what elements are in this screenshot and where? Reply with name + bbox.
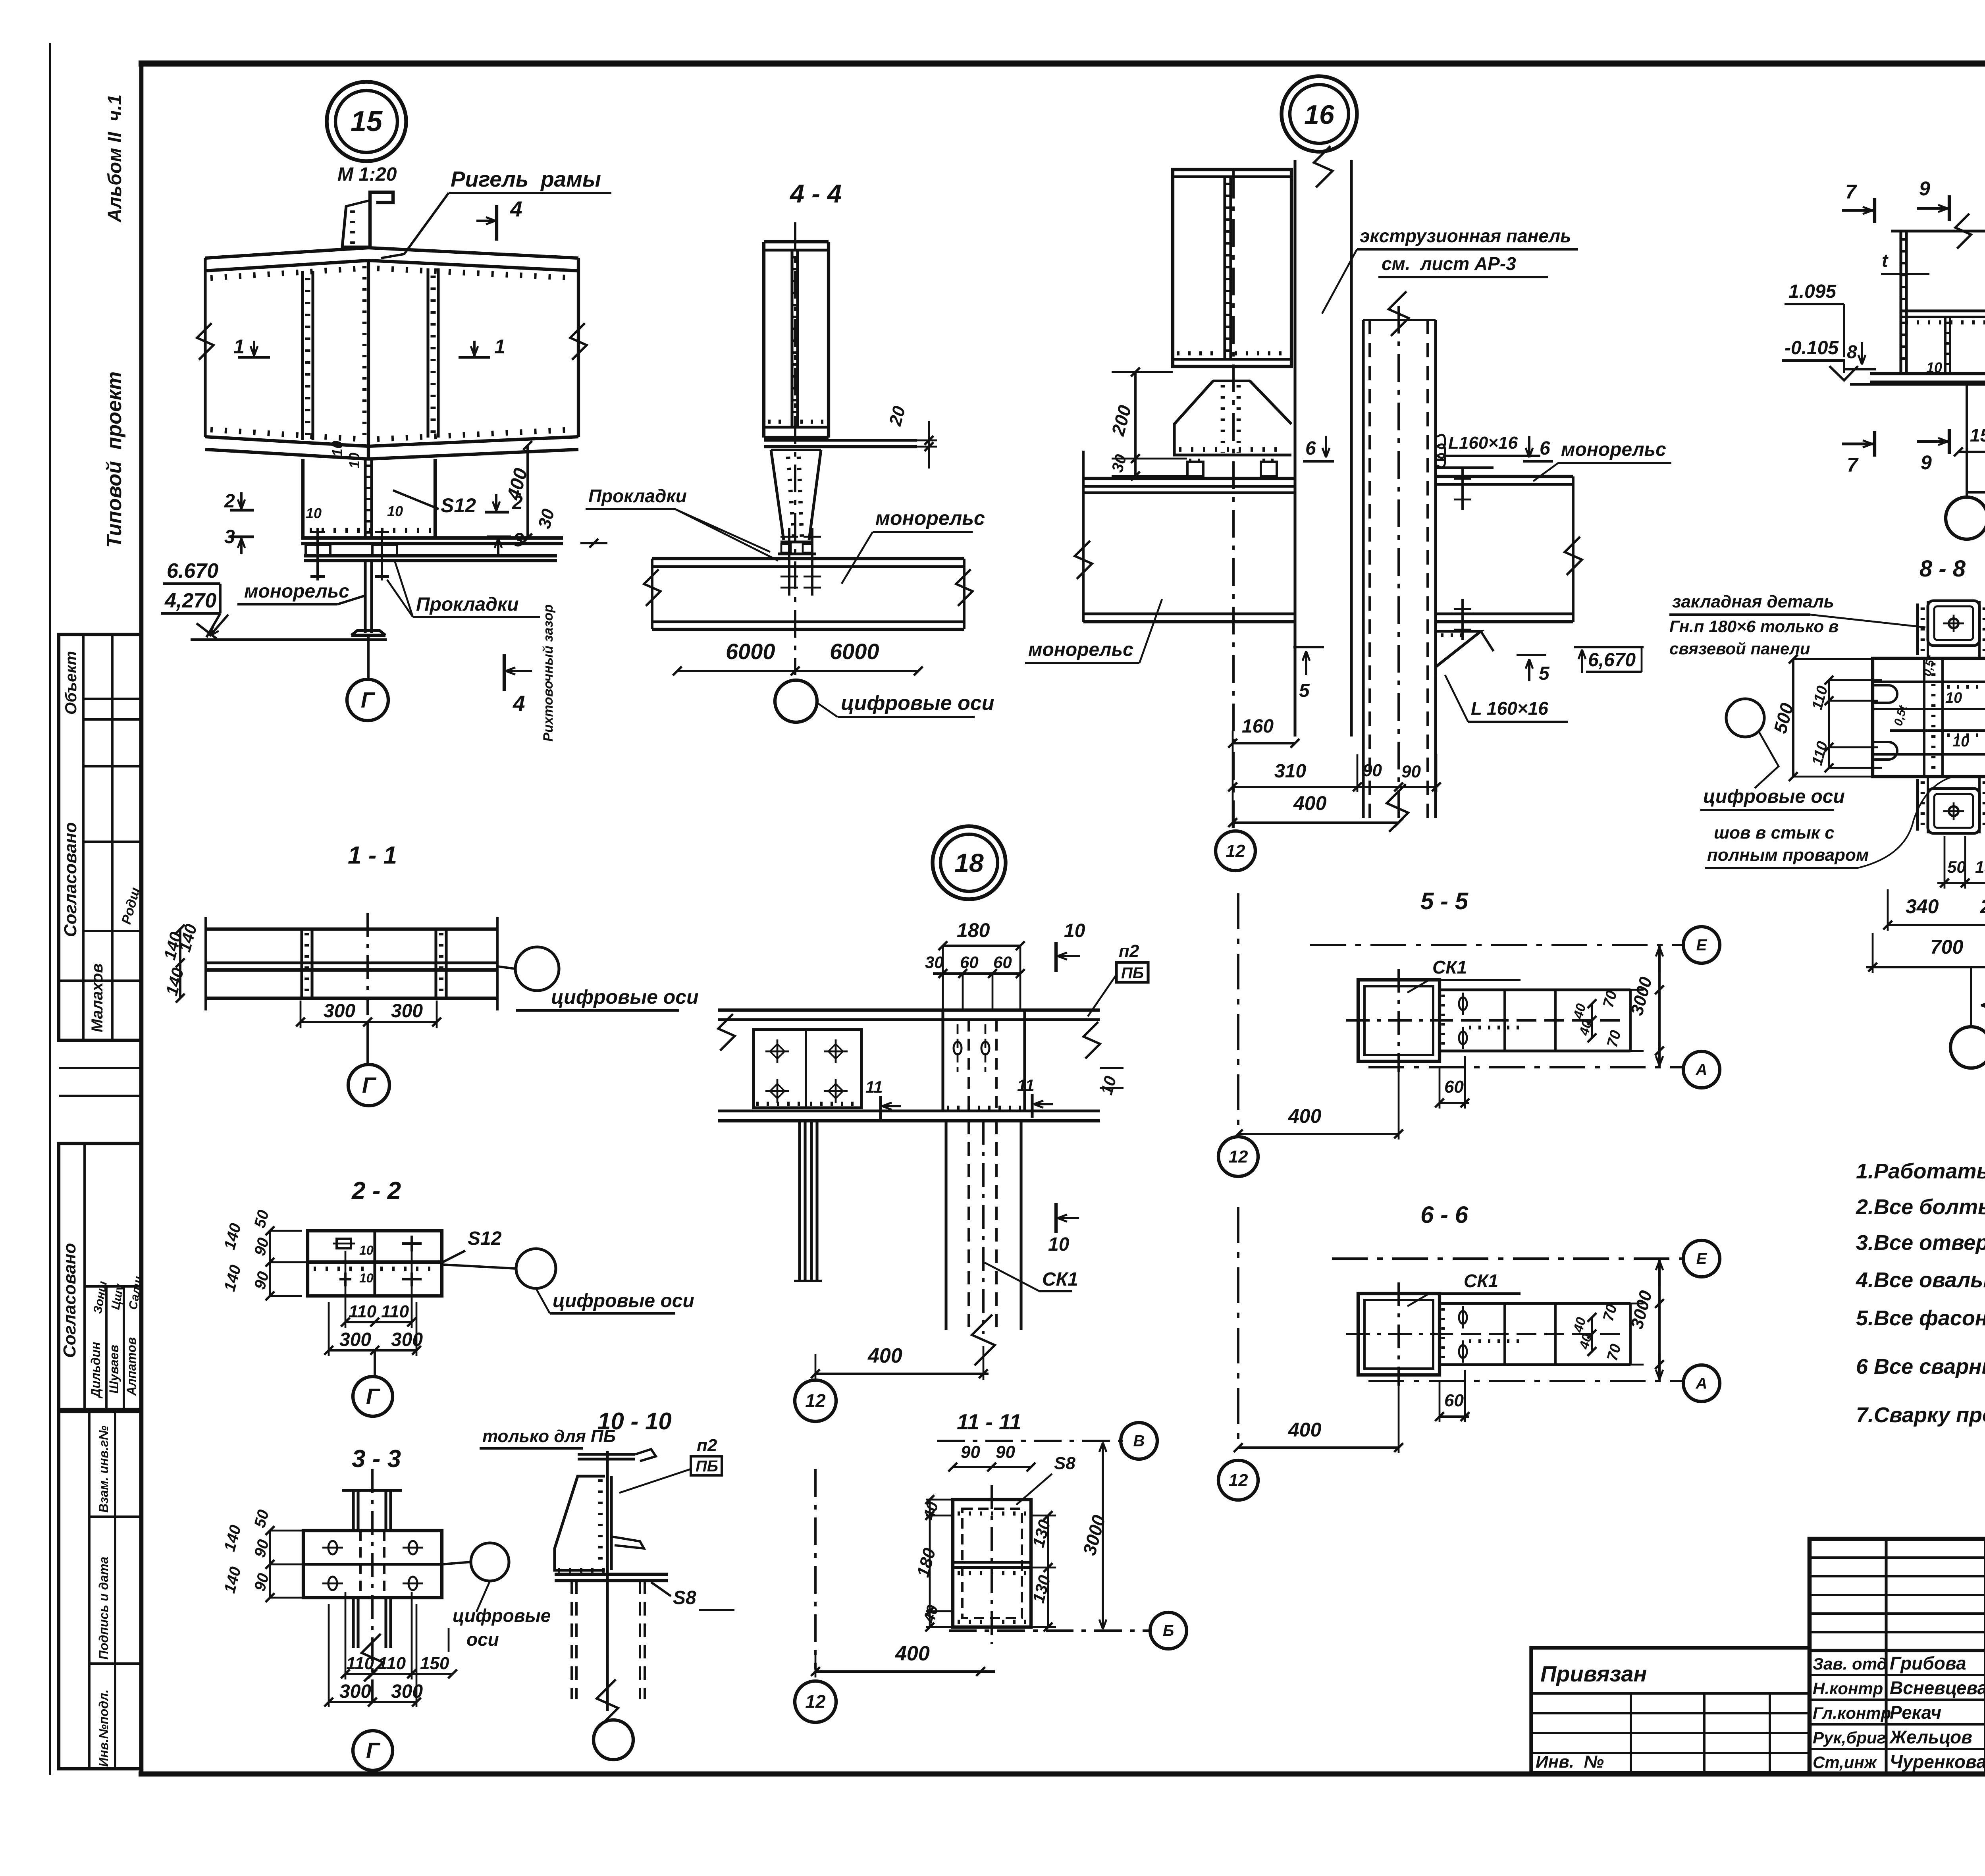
section 11-11 plate <box>953 1500 1031 1627</box>
section 5-5 axis E line <box>1310 944 1682 946</box>
svg-text:18: 18 <box>954 848 984 877</box>
margin small rows <box>59 1067 141 1069</box>
section 6-6 axis E line <box>1332 1257 1682 1260</box>
sheet outer left edge line <box>49 43 51 1775</box>
detail 16 axis circle 12 <box>1216 831 1255 871</box>
svg-text:1: 1 <box>233 335 245 358</box>
svg-text:10: 10 <box>1048 1234 1070 1255</box>
section 4-4 column <box>764 240 829 243</box>
detail 18 right connection plates <box>941 1010 944 1111</box>
section mark 5 left <box>1305 651 1307 675</box>
privyazan box <box>1531 1648 1810 1773</box>
svg-text:Г: Г <box>366 1738 381 1763</box>
svg-text:СК1: СК1 <box>1432 957 1467 978</box>
svg-text:90: 90 <box>961 1442 980 1462</box>
svg-text:Алпатов: Алпатов <box>124 1337 139 1396</box>
svg-text:10: 10 <box>1926 359 1942 376</box>
svg-text:В: В <box>1133 1433 1145 1450</box>
section 1-1 left dims 140 <box>179 929 181 998</box>
svg-text:6 Все сварные швы hш=6мм: 6 Все сварные швы hш=6мм <box>1856 1355 1985 1379</box>
svg-text:11: 11 <box>1017 1076 1035 1095</box>
title block outer box <box>1810 1539 1985 1774</box>
svg-text:монорельс: монорельс <box>1028 639 1133 660</box>
svg-text:2.Все болты М12.: 2.Все болты М12. <box>1856 1195 1985 1219</box>
dimension 400 vertical detail 15 <box>526 445 529 538</box>
section mark 11 right <box>1031 1094 1033 1118</box>
svg-text:монорельс: монорельс <box>1561 439 1666 460</box>
svg-text:300: 300 <box>324 1001 355 1022</box>
section 3-3 callout circle <box>471 1543 509 1581</box>
elevation 6.670 detail 16 <box>1581 650 1583 673</box>
svg-text:Согласовано: Согласовано <box>61 822 80 937</box>
svg-text:60: 60 <box>1444 1391 1464 1410</box>
detail 15 shim plates and lower plate <box>304 554 557 557</box>
svg-text:11: 11 <box>865 1078 883 1096</box>
svg-text:Альбом II ч.1: Альбом II ч.1 <box>104 94 125 223</box>
svg-text:6000: 6000 <box>830 639 879 664</box>
section 8-8 top embed plate <box>1928 601 1979 646</box>
svg-text:Грибова: Грибова <box>1890 1653 1966 1674</box>
svg-text:9: 9 <box>1919 177 1930 200</box>
section 8-8 left callout circle <box>1726 699 1764 737</box>
svg-text:шов в стык с: шов в стык с <box>1714 823 1835 843</box>
section 1-1 flange plan <box>206 927 497 931</box>
detail 10-10 hanger posts <box>570 1581 573 1699</box>
svg-text:3: 3 <box>513 530 524 551</box>
svg-text:10: 10 <box>306 505 322 521</box>
detail 15 anchor bolts <box>316 528 319 580</box>
svg-text:только для ПБ: только для ПБ <box>482 1427 616 1446</box>
section 5-5 axis circle E <box>1683 927 1720 963</box>
svg-text:Б: Б <box>1163 1622 1174 1640</box>
svg-text:Подпись и дата: Подпись и дата <box>96 1557 111 1660</box>
svg-text:60: 60 <box>1444 1077 1464 1097</box>
svg-text:300: 300 <box>391 1001 423 1022</box>
svg-text:300: 300 <box>339 1329 371 1350</box>
detail 10-10 axis circle <box>594 1720 633 1760</box>
svg-text:Г: Г <box>366 1384 381 1409</box>
drawing frame left border <box>139 64 144 1774</box>
svg-text:Дильдин: Дильдин <box>89 1342 103 1399</box>
section 5-5 axis circle A <box>1683 1051 1720 1088</box>
title block upper thin rows <box>1810 1556 1985 1559</box>
detail 16 shim pads <box>1187 462 1203 476</box>
svg-text:Г: Г <box>362 1072 377 1097</box>
section 4-4 centre line <box>794 222 796 675</box>
svg-text:Рихтовочный зазор: Рихтовочный зазор <box>541 604 556 742</box>
svg-text:-0.105: -0.105 <box>1785 337 1839 359</box>
section mark 5 right <box>1528 659 1530 681</box>
svg-text:150: 150 <box>1975 858 1985 876</box>
svg-text:А: А <box>1696 1061 1707 1079</box>
detail 10-10 horizontal plate <box>555 1573 668 1576</box>
detail 18 hanger plate below left <box>798 1121 801 1281</box>
section 11-11 centre line <box>991 1485 993 1644</box>
section 1-1 dim 300 300 <box>301 1021 437 1023</box>
svg-text:S12: S12 <box>468 1228 502 1249</box>
svg-text:Шуваев: Шуваев <box>107 1345 121 1394</box>
svg-text:S8: S8 <box>1054 1454 1075 1473</box>
svg-text:400: 400 <box>895 1642 930 1665</box>
svg-text:90: 90 <box>1401 762 1421 781</box>
svg-text:L160×16: L160×16 <box>1448 433 1518 453</box>
section 6-6 bar <box>1440 1302 1630 1305</box>
section 8-8 dims 110 110 <box>1828 680 1830 768</box>
svg-text:см. лист АР-3: см. лист АР-3 <box>1382 253 1516 274</box>
detail 15 beam bottom flange <box>205 437 578 446</box>
svg-text:110: 110 <box>381 1302 409 1321</box>
svg-text:30: 30 <box>925 953 944 972</box>
detail 15 beam left edge with break <box>204 258 206 437</box>
svg-text:Рекач: Рекач <box>1890 1702 1941 1723</box>
svg-text:400: 400 <box>1288 1105 1322 1127</box>
section mark 10 bottom detail 18 <box>1054 1203 1058 1233</box>
svg-text:240: 240 <box>1980 895 1985 918</box>
detail 16 wall panel lines <box>1293 160 1296 737</box>
drawing frame bottom border <box>139 1772 1985 1777</box>
svg-text:16: 16 <box>1304 100 1335 130</box>
svg-text:400: 400 <box>1293 792 1327 814</box>
svg-text:50: 50 <box>1947 858 1966 876</box>
svg-text:60: 60 <box>960 953 979 972</box>
detail 18 left splice plate <box>754 1030 861 1108</box>
svg-text:9: 9 <box>1921 451 1932 474</box>
svg-text:СК1: СК1 <box>1464 1271 1498 1291</box>
detail 17 inner verticals <box>1944 317 1946 374</box>
detail 15 monorail I-beam below <box>364 561 366 633</box>
svg-text:СК1: СК1 <box>1042 1269 1078 1290</box>
section 5-5 axis circle 12 <box>1218 1137 1258 1176</box>
svg-text:3: 3 <box>224 526 235 548</box>
svg-text:М 1:20: М 1:20 <box>337 164 397 185</box>
margin table upper box <box>59 634 141 1040</box>
dimension 2-3 marks right <box>485 511 509 513</box>
section 3-3 centre line <box>371 1469 374 1707</box>
detail 15 beam right edge <box>577 258 580 437</box>
svg-text:Е: Е <box>1696 937 1707 954</box>
svg-text:оси: оси <box>466 1629 499 1650</box>
svg-text:300: 300 <box>391 1681 423 1702</box>
section 5-5 CK1 square <box>1358 980 1440 1061</box>
section 2-2 dim 110 110 <box>345 1321 412 1323</box>
section 5-5 axis A line <box>1368 1066 1682 1068</box>
svg-text:6: 6 <box>1540 438 1550 459</box>
section mark 1 right <box>459 356 490 359</box>
section 6-6 axis circle 12 <box>1218 1460 1258 1500</box>
title block left grid verticals <box>1885 1539 1887 1774</box>
svg-text:Н.контр: Н.контр <box>1813 1679 1883 1698</box>
detail 15 column below beam <box>301 459 304 538</box>
title block signature rows <box>1810 1674 1985 1676</box>
svg-text:150: 150 <box>420 1654 449 1673</box>
detail 18 left splice bolts <box>765 1051 789 1053</box>
svg-text:8 - 8: 8 - 8 <box>1919 556 1966 582</box>
section marks 7 9 bottom <box>1842 442 1875 445</box>
svg-text:1 - 1: 1 - 1 <box>348 842 397 869</box>
section 1-1 callout circle <box>515 947 559 991</box>
section 11-11 right dims 130 130 <box>1047 1515 1049 1627</box>
svg-text:15: 15 <box>351 106 383 137</box>
svg-text:7: 7 <box>1845 181 1857 203</box>
elevation arrow and ground line <box>206 613 220 637</box>
svg-text:монорельс: монорельс <box>875 507 985 529</box>
section 5-5 bar <box>1440 988 1630 991</box>
detail 18 right bolts <box>954 1042 962 1055</box>
section mark 4 top <box>495 205 498 241</box>
svg-text:110: 110 <box>349 1302 377 1321</box>
svg-text:связевой панели: связевой панели <box>1669 639 1810 658</box>
section 1-1 centre line <box>366 913 369 1015</box>
svg-text:10: 10 <box>359 1271 374 1285</box>
section 3-3 column above <box>352 1490 355 1531</box>
svg-text:Инв.№подл.: Инв.№подл. <box>96 1689 111 1767</box>
svg-text:Инв. №: Инв. № <box>1536 1752 1604 1772</box>
svg-text:2 - 2: 2 - 2 <box>351 1177 401 1205</box>
section 5-5 bar bolts <box>1459 997 1467 1010</box>
section 3-3 bolts <box>328 1541 337 1554</box>
svg-text:4 - 4: 4 - 4 <box>789 179 842 208</box>
detail 10-10 rail channel <box>578 1453 635 1456</box>
section 6-6 axis circle A <box>1683 1365 1720 1402</box>
svg-text:Г: Г <box>361 687 376 712</box>
section 6-6 axis circle E <box>1683 1240 1720 1277</box>
svg-text:L 160×16: L 160×16 <box>1471 698 1548 719</box>
section mark 11 left <box>879 1096 882 1120</box>
section mark 10 top detail 18 <box>1054 942 1058 972</box>
axis callout bukvennye osi 8-8 <box>1950 1027 1985 1068</box>
section 2-2 bolts <box>337 1239 351 1248</box>
detail 18 CK1 column below <box>944 1121 947 1330</box>
svg-text:10: 10 <box>359 1243 374 1257</box>
section 8-8 left notches <box>1873 685 1897 703</box>
section 1-1 axis circle G <box>366 1022 369 1064</box>
detail 17 top line <box>1891 229 1985 232</box>
svg-text:400: 400 <box>867 1344 902 1367</box>
svg-text:12: 12 <box>805 1390 826 1411</box>
svg-text:п2: п2 <box>697 1436 717 1455</box>
svg-text:закладная деталь: закладная деталь <box>1672 592 1834 611</box>
section 6-6 axis A line <box>1368 1380 1682 1382</box>
margin table second box <box>59 1143 141 1409</box>
detail 17 posts <box>1899 231 1902 374</box>
section 11-11 dim 3000 <box>1102 1442 1104 1477</box>
section 3-3 column below <box>352 1598 355 1648</box>
section 4-4 horizontal plate <box>764 439 917 442</box>
detail 15 beam web stiffeners <box>301 271 304 440</box>
section 8-8 bottom embed plate <box>1928 789 1979 833</box>
svg-text:700: 700 <box>1930 936 1964 958</box>
svg-text:110: 110 <box>346 1654 374 1673</box>
svg-text:2: 2 <box>224 491 235 512</box>
svg-text:7: 7 <box>1847 454 1859 476</box>
svg-text:160: 160 <box>1242 716 1274 737</box>
svg-text:5: 5 <box>1539 663 1550 684</box>
section 5-5 dims 70 70 <box>1617 990 1618 1051</box>
svg-text:150: 150 <box>1970 425 1985 445</box>
detail 15 beam centre web <box>367 260 370 459</box>
section 6-6 dims 70 70 <box>1617 1303 1618 1365</box>
section 11-11 axis B bottom circle <box>949 1629 1151 1632</box>
svg-text:Объект: Объект <box>62 651 80 715</box>
svg-text:цифровые оси: цифровые оси <box>841 692 994 715</box>
svg-text:5: 5 <box>1299 680 1310 701</box>
svg-text:Согласовано: Согласовано <box>60 1243 79 1358</box>
svg-text:6: 6 <box>1305 438 1316 459</box>
svg-text:5.Все фасонки S 10мм: 5.Все фасонки S 10мм <box>1856 1306 1985 1330</box>
svg-text:340: 340 <box>1906 895 1939 918</box>
detail 16 taper bracket <box>1174 381 1291 455</box>
svg-text:10: 10 <box>1064 920 1085 941</box>
svg-text:1.095: 1.095 <box>1788 281 1837 302</box>
svg-text:180: 180 <box>957 919 990 941</box>
svg-text:90: 90 <box>996 1442 1015 1462</box>
section 6-6 axis line 12 <box>1237 1207 1239 1448</box>
svg-text:6 - 6: 6 - 6 <box>1420 1201 1469 1228</box>
svg-text:Е: Е <box>1696 1250 1707 1268</box>
detail 16 dim 200 30 <box>1134 372 1137 476</box>
svg-text:экструзионная панель: экструзионная панель <box>1360 226 1571 246</box>
svg-text:Привязан: Привязан <box>1540 1661 1647 1686</box>
section 3-3 dim 300 300 <box>329 1701 416 1703</box>
section 2-2 dim 300 300 <box>329 1349 416 1352</box>
svg-text:12: 12 <box>1226 841 1245 861</box>
detail 16 bolts right <box>1461 469 1464 510</box>
detail 15 beam top flange <box>205 248 578 258</box>
detail 10-10 gusset <box>555 1476 605 1570</box>
detail 16 monorail left <box>1083 477 1295 480</box>
svg-text:1.Работать совместно с листам: 1.Работать совместно с листами КМ-5; КМ-… <box>1856 1159 1985 1183</box>
svg-text:1: 1 <box>494 335 505 358</box>
svg-text:10: 10 <box>387 503 403 519</box>
svg-text:Взам. инв.г№: Взам. инв.г№ <box>96 1425 111 1513</box>
section 8-8 dim 500 <box>1792 659 1794 777</box>
detail 16 CK1 column band <box>1362 320 1364 818</box>
section 4-4 taper bracket <box>771 450 784 540</box>
svg-text:400: 400 <box>1288 1419 1322 1441</box>
svg-text:Ригель рамы: Ригель рамы <box>451 167 601 191</box>
detail 17 base plate <box>1870 372 1985 375</box>
axis callout bukvennye osi 17 <box>1946 497 1985 539</box>
detail 15 top bracket channel <box>370 192 393 249</box>
svg-text:А: А <box>1696 1375 1707 1392</box>
detail 18 bubble <box>933 826 1006 899</box>
section 2-2 plate plan <box>308 1231 442 1296</box>
section 5-5 centre lines <box>1397 969 1400 1072</box>
svg-text:90: 90 <box>1363 761 1382 780</box>
svg-text:12: 12 <box>1229 1147 1248 1166</box>
svg-text:S12: S12 <box>441 494 476 517</box>
svg-text:300: 300 <box>339 1681 371 1702</box>
svg-text:цифровые: цифровые <box>453 1605 551 1626</box>
section 2-2 left dims <box>269 1231 271 1296</box>
section 4-4 axis callout <box>775 680 817 722</box>
svg-text:монорельс: монорельс <box>244 581 349 602</box>
svg-text:310: 310 <box>1274 761 1306 782</box>
detail 18 axis circle 12 <box>795 1380 836 1421</box>
svg-text:7.Сварку производить электрода: 7.Сварку производить электродами Э48А по… <box>1856 1403 1985 1427</box>
section mark 6 right <box>1528 436 1530 457</box>
section 11-11 axis B top circle <box>937 1440 1124 1442</box>
detail 16 bottom angle gusset <box>1436 631 1481 667</box>
svg-text:12: 12 <box>805 1691 826 1712</box>
svg-text:Жельцов: Жельцов <box>1889 1727 1972 1747</box>
svg-text:Гл.контр: Гл.контр <box>1813 1704 1891 1722</box>
detail 16 angle L160x16 top <box>1436 466 1494 469</box>
section 6-6 bar bolts <box>1459 1311 1467 1324</box>
svg-text:S8: S8 <box>673 1587 696 1608</box>
svg-text:4: 4 <box>510 197 522 221</box>
svg-text:10: 10 <box>1952 733 1969 750</box>
section 4-4 shims and bolts <box>781 540 813 543</box>
svg-text:6000: 6000 <box>726 639 775 664</box>
svg-text:п2: п2 <box>1119 941 1139 961</box>
svg-text:4: 4 <box>513 691 525 715</box>
svg-text:Рук,бриг: Рук,бриг <box>1813 1728 1886 1747</box>
svg-text:5 - 5: 5 - 5 <box>1420 888 1469 914</box>
drawing frame top border <box>139 60 1985 66</box>
svg-text:11 - 11: 11 - 11 <box>957 1409 1021 1434</box>
svg-text:4.Все овальные отверстия ф: 4.Все овальные отверстия ф=20мм <box>1856 1268 1985 1292</box>
detail 16 column top <box>1173 170 1291 366</box>
detail 15 bubble <box>327 82 406 161</box>
detail 16 bubble <box>1282 76 1357 152</box>
svg-text:110: 110 <box>378 1654 406 1673</box>
section 3-3 left dims <box>269 1531 271 1598</box>
detail 15 column base plate <box>301 536 563 540</box>
svg-text:Всневцева: Всневцева <box>1890 1677 1985 1698</box>
section 3-3 plate plan <box>303 1531 442 1598</box>
svg-text:3.Все отверстия ф 15мм.: 3.Все отверстия ф 15мм. <box>1856 1231 1985 1255</box>
section 3-3 axis circle G <box>353 1731 393 1770</box>
detail 16 monorail right <box>1436 475 1573 478</box>
svg-text:полным проваром: полным проваром <box>1707 845 1869 865</box>
axis circle G detail 15 <box>367 635 370 680</box>
detail 17 mid rail <box>1901 309 1985 312</box>
section 6-6 centre lines <box>1397 1282 1400 1386</box>
svg-text:3 - 3: 3 - 3 <box>352 1445 401 1473</box>
svg-text:Прокладки: Прокладки <box>588 486 687 506</box>
section mark 1 left <box>238 356 270 359</box>
section 8-8 central assembly <box>1873 658 1985 777</box>
section 2-2 callout circle <box>516 1249 556 1288</box>
svg-text:10: 10 <box>329 441 345 457</box>
section mark 4 bottom <box>503 654 506 691</box>
svg-text:6.670: 6.670 <box>167 559 218 582</box>
margin table lower box <box>59 1411 141 1769</box>
svg-text:Типовой проект: Типовой проект <box>103 372 126 548</box>
svg-text:Малахов: Малахов <box>89 963 106 1032</box>
svg-text:12: 12 <box>1229 1471 1248 1490</box>
svg-text:Ст,инж: Ст,инж <box>1813 1753 1877 1772</box>
svg-text:ПБ: ПБ <box>696 1458 718 1475</box>
section 1-1 stiffener webs <box>300 929 303 998</box>
section 6-6 weld row <box>1469 1339 1521 1343</box>
svg-text:Зав. отд: Зав. отд <box>1813 1654 1887 1673</box>
svg-text:ПБ: ПБ <box>1121 964 1144 982</box>
svg-text:цифровые оси: цифровые оси <box>553 1290 694 1311</box>
svg-text:300: 300 <box>391 1329 423 1350</box>
detail 16 axis centre line <box>1232 171 1235 828</box>
section 5-5 axis line 12 <box>1237 893 1239 1134</box>
svg-text:Прокладки: Прокладки <box>416 594 519 615</box>
detail 18 beam <box>718 1008 1100 1012</box>
svg-text:Чуренкова: Чуренкова <box>1890 1751 1985 1772</box>
detail 18 axis circle 12 lower <box>814 1469 817 1670</box>
svg-text:цифровые оси: цифровые оси <box>551 986 699 1008</box>
section 11-11 left dims <box>944 1500 945 1627</box>
dimension 2-3 marks left <box>230 509 254 511</box>
section 4-4 monorail <box>652 557 964 560</box>
